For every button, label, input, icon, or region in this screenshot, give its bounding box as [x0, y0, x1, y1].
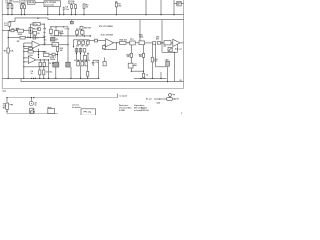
wire input top left [14, 1, 20, 3]
svg-text:Q1: Q1 [56, 39, 58, 41]
svg-text:thr: thr [43, 35, 46, 38]
wire U8 out [180, 42, 184, 44]
svg-text:C7 10u: C7 10u [46, 71, 53, 73]
battery BT1 [6, 103, 9, 109]
regulator U1 [28, 1, 36, 4]
TO-92 package [167, 98, 173, 101]
resistor R1 [71, 3, 73, 14]
wire Rx down [57, 51, 59, 62]
fuse F1 [8, 22, 11, 26]
component box TP [130, 41, 135, 45]
wire U6 out [114, 42, 120, 44]
op-amp U4b [28, 56, 36, 63]
wire vertical x162 [161, 20, 163, 53]
switch S2 [30, 111, 31, 112]
svg-text:0.25W: 0.25W [119, 110, 125, 112]
junction dots ground rail [8, 78, 9, 79]
wire ground rail right [134, 77, 167, 79]
connector J1 [29, 28, 32, 34]
svg-text:32kHz: 32kHz [50, 59, 55, 61]
resistor R17b [79, 49, 82, 52]
capacitor C6 [39, 67, 41, 79]
svg-text:PP3: PP3 [10, 104, 14, 106]
capacitor C4 [24, 5, 26, 9]
border left [1, 0, 3, 89]
wire battery bottom [7, 113, 58, 115]
wire row y39.8 [74, 39, 90, 41]
resistor R12a [39, 60, 41, 62]
component DB0 [51, 38, 56, 42]
svg-text:1M: 1M [17, 41, 20, 43]
IC U5 box [55, 31, 59, 36]
resistor R6 [33, 31, 37, 35]
wire vertical x140 [139, 20, 141, 41]
svg-text:B+ out: B+ out [146, 98, 152, 101]
svg-text:R13: R13 [76, 29, 80, 31]
capacitor C7 [43, 67, 45, 79]
resistor R25 [139, 41, 145, 45]
junction dots misc [9, 30, 10, 31]
svg-text:1% metal film: 1% metal film [119, 107, 132, 110]
svg-text:R9: R9 [4, 50, 6, 52]
wire to U6 [89, 39, 105, 42]
resistor R28 [130, 53, 132, 57]
wire vertical x174.3 [173, 52, 175, 81]
capacitor C5 [63, 7, 65, 8]
svg-text:R15 1M: R15 1M [84, 28, 91, 30]
wire vertical x152.3 [151, 44, 153, 78]
wire feedback row [8, 37, 44, 39]
crystal X1 [53, 62, 59, 67]
svg-text:IC3 LTC1050: IC3 LTC1050 [101, 35, 114, 37]
wire row y60.2 [74, 59, 90, 61]
resistor R14 [81, 31, 84, 35]
resistor R22 [85, 61, 88, 66]
wire Bm to Rx [49, 54, 58, 56]
wire x98.7 [93, 60, 99, 78]
border right [183, 0, 185, 89]
wire U4b out [36, 60, 49, 79]
resistor R31 [151, 57, 153, 62]
resistor R24 [120, 41, 127, 44]
resistor R4 [18, 29, 24, 32]
trimmer VR2 [168, 47, 172, 51]
resistor Rx [56, 47, 58, 52]
wire U8 feedback row [162, 51, 178, 53]
wire vertical x44.2 feedback [43, 24, 45, 45]
svg-text:plug: plug [48, 107, 52, 109]
wire minus rail [21, 78, 184, 81]
note box [81, 109, 96, 115]
svg-text:C2 47u: C2 47u [6, 2, 14, 5]
connector J2 top right [177, 2, 181, 6]
resistor R29 [142, 53, 144, 57]
resistor R3 [83, 4, 85, 15]
svg-text:PP3 clip: PP3 clip [84, 112, 92, 114]
svg-text:B1: B1 [3, 108, 5, 110]
wire U1 out [35, 1, 44, 3]
wire cap pair 1 top [7, 2, 9, 15]
svg-text:dis: dis [44, 40, 47, 42]
resistor R10 [29, 48, 33, 50]
resistor R27 [157, 42, 160, 45]
arrowheads [159, 98, 161, 99]
border bottom [2, 88, 183, 90]
svg-text:R2 10k: R2 10k [68, 3, 76, 5]
wire [145, 42, 153, 44]
svg-text:S1 on: S1 on [12, 29, 18, 31]
capacitor C2 [11, 4, 13, 15]
wire feedback col x38.5 [38, 49, 40, 58]
component box U7 [164, 41, 171, 45]
plug P1 [30, 108, 34, 113]
resistor R18 [86, 41, 89, 44]
resistor R9 [7, 48, 9, 53]
svg-text:dc: dc [35, 105, 37, 107]
wire small feedback [24, 48, 34, 50]
resistor R20 [77, 61, 80, 66]
component box on wire [52, 53, 55, 56]
svg-text:IC3 LTC1050N: IC3 LTC1050N [99, 26, 113, 28]
resistor R15 [80, 27, 83, 30]
resistor R16b [75, 49, 78, 52]
svg-text:IC4 out: IC4 out [175, 47, 182, 50]
wire U2 pin right [59, 7, 61, 15]
resistor R23 [87, 66, 89, 79]
wire ground rail left [2, 77, 99, 79]
resistor R13 [76, 31, 79, 35]
wire battery to board [117, 94, 119, 98]
trimmer VR3 [128, 63, 133, 68]
component box (84,55) [83, 55, 86, 60]
capacitor C9 [102, 46, 105, 49]
svg-text:C4 47u: C4 47u [19, 2, 27, 5]
IC U2 converter box [44, 1, 61, 7]
svg-text:4k7: 4k7 [156, 38, 159, 41]
svg-text:Resistors:: Resistors: [119, 104, 129, 107]
marker on rail2 [71, 20, 73, 22]
component DB2 [66, 62, 70, 67]
wire DB2 down [70, 67, 72, 78]
junction dots top rail [7, 14, 8, 15]
wire vertical x161 [160, 0, 162, 15]
capacitor C1 [7, 5, 9, 9]
wire battery left [6, 98, 8, 114]
op-amp U8 [173, 39, 180, 46]
svg-text:C7 1n: C7 1n [65, 28, 71, 30]
wire R21 down [80, 66, 82, 79]
wire vertical x143.5 [143, 45, 145, 79]
terminal TP1 [90, 35, 91, 36]
wire rail2 [9, 18, 183, 22]
component box Bm [44, 53, 50, 56]
wire vertical x131.3 [131, 45, 143, 71]
verticals mid column [76, 48, 78, 61]
wire [135, 42, 139, 44]
wire [171, 42, 173, 44]
trimmer VR1 [116, 1, 118, 3]
svg-text:C6: C6 [37, 33, 39, 35]
wire vertical x68 [67, 27, 69, 62]
resistor R19 [95, 39, 98, 42]
wire [161, 42, 164, 44]
svg-text:R5 1M: R5 1M [33, 29, 39, 31]
svg-text:78L05: 78L05 [28, 2, 35, 4]
resistor R30 [142, 73, 144, 77]
svg-text:IC1 LT1054: IC1 LT1054 [45, 1, 57, 4]
component DB3 [166, 61, 170, 66]
resistor R26 [153, 42, 156, 45]
resistor R17 [82, 41, 85, 44]
svg-text:to board: to board [120, 95, 127, 98]
wire row y66.8 [24, 66, 49, 68]
svg-text:converter: converter [45, 4, 55, 7]
svg-text:C8: C8 [95, 62, 97, 64]
wire vertical x146 [145, 0, 147, 15]
svg-text:see text: see text [72, 104, 79, 107]
wire vertical x23.8 [23, 43, 25, 78]
resistor R8 [20, 36, 25, 39]
svg-text:R8: R8 [27, 37, 29, 39]
connector P2 [48, 109, 55, 114]
resistor R5 [38, 28, 41, 31]
wire U5 top [56, 27, 68, 31]
wire battery loop top [7, 97, 118, 99]
resistor R12b [43, 60, 45, 62]
svg-text:P1: P1 [164, 46, 166, 48]
wire vertical x174 [173, 0, 175, 15]
resistor R2 [75, 4, 77, 15]
resistor R7 [33, 36, 36, 39]
svg-text:fig.2: fig.2 [3, 90, 7, 92]
switch S1 symbol [16, 28, 18, 30]
svg-text:set: set [134, 63, 137, 66]
wire U5 out [59, 33, 90, 36]
svg-text:for details: for details [72, 106, 81, 109]
wire U2 pin left [47, 7, 49, 15]
wire U5b out [59, 44, 69, 46]
component box (103,61) [103, 61, 106, 66]
wire [126, 42, 130, 44]
svg-text:R24 10k: R24 10k [120, 39, 128, 42]
svg-text:25k: 25k [118, 6, 121, 8]
capacitor C5b [50, 29, 53, 33]
wire vertical x30.4 [29, 24, 31, 37]
IC U3 box [33, 22, 40, 26]
resistor R11 [28, 50, 33, 53]
wire input row [2, 30, 29, 32]
wire U4a out [40, 44, 52, 46]
wire row y51.7 [24, 51, 44, 53]
svg-text:top: top [172, 93, 175, 96]
wire V+ rail [2, 14, 183, 16]
wire cap pair 2 [21, 3, 24, 5]
jack J3 [30, 98, 32, 102]
svg-text:PCB 104: PCB 104 [141, 109, 149, 112]
wire vertical x155.6 [156, 44, 166, 67]
op-amp U4a [32, 41, 40, 49]
resistor R18b [83, 49, 86, 52]
resistor R21 [81, 61, 84, 66]
wire vertical x8.2 [7, 31, 9, 79]
wire U6 feedback [104, 43, 117, 50]
component box U5b [52, 43, 59, 47]
capacitor C8 [92, 60, 94, 62]
component on wire [11, 29, 14, 31]
wire vertical x161 low [160, 72, 162, 78]
op-amp U6 [106, 39, 114, 47]
svg-text:IC2d: IC2d [29, 55, 33, 57]
svg-text:rst: rst [43, 31, 46, 34]
resistor R16 [78, 41, 81, 44]
svg-text:C9 1u: C9 1u [49, 63, 54, 65]
capacitor C3 [20, 5, 22, 9]
